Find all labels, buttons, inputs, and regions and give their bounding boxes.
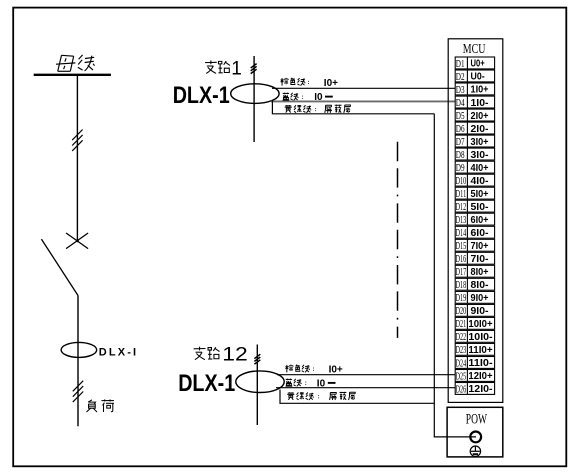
svg-text:9I0-: 9I0-	[471, 306, 489, 317]
svg-text:I0+: I0+	[324, 78, 338, 89]
continuation dashed line (branches 2..11 omitted)	[397, 142, 399, 338]
svg-text:D2: D2	[456, 72, 465, 83]
svg-text:5I0+: 5I0+	[471, 189, 489, 200]
svg-text:D7: D7	[456, 137, 465, 148]
terminal D16 7I0-	[455, 252, 494, 265]
terminal D9 4I0+	[455, 161, 494, 174]
svg-text:12I0+: 12I0+	[468, 371, 492, 382]
svg-text:D12: D12	[456, 202, 467, 213]
terminal D18 8I0-	[455, 278, 494, 291]
svg-text:D4: D4	[456, 98, 465, 109]
svg-text:6I0-: 6I0-	[471, 228, 489, 239]
svg-text:U0-: U0-	[471, 72, 485, 83]
svg-text:D1: D1	[456, 59, 465, 70]
svg-text:D14: D14	[456, 228, 467, 239]
svg-text:1: 1	[231, 58, 242, 79]
branch 12 wire hatch squiggle	[254, 354, 260, 364]
svg-text:D13: D13	[456, 215, 467, 226]
svg-text:9I0+: 9I0+	[471, 293, 489, 304]
disconnect switch contact (X mark)	[66, 233, 88, 249]
wire: feeder lower segment	[77, 296, 79, 427]
svg-text:U0+: U0+	[471, 59, 485, 70]
POW power supply box	[447, 407, 503, 457]
svg-text:D15: D15	[456, 241, 467, 252]
terminal D26 12I0-	[455, 383, 494, 396]
current transformer DLX-I (left feeder)	[61, 342, 97, 357]
svg-text:DLX-1: DLX-1	[178, 370, 235, 397]
feeder hatch marks (lower)	[73, 381, 83, 402]
terminal D20 9I0-	[455, 304, 494, 317]
branch 12 label 支路12	[194, 344, 248, 365]
svg-text:12I0-: 12I0-	[468, 384, 492, 395]
svg-text:D3: D3	[456, 85, 465, 96]
terminal D1 U0+	[455, 57, 494, 70]
branch 1 label 支路1	[205, 58, 242, 79]
terminal D10 4I0-	[455, 174, 494, 187]
svg-text:1I0-: 1I0-	[471, 98, 489, 109]
feeder hatch marks (upper)	[72, 130, 82, 151]
svg-text:3I0-: 3I0-	[471, 150, 489, 161]
svg-text:MCU: MCU	[463, 41, 486, 56]
current transformer DLX-1 (branch 1)	[231, 84, 279, 104]
terminal D15 7I0+	[455, 239, 494, 252]
label yellow-green wire shield	[285, 105, 351, 113]
svg-text:8I0-: 8I0-	[471, 280, 489, 291]
svg-text:D20: D20	[456, 306, 467, 317]
svg-text:2I0+: 2I0+	[471, 111, 489, 122]
svg-text:D21: D21	[456, 319, 467, 330]
svg-text:POW: POW	[466, 411, 488, 427]
wire: branch12 I0- to MCU D26	[276, 387, 455, 389]
wire: branch 12 vertical	[256, 345, 258, 426]
label brown wire I0+ (branch 12)	[285, 365, 343, 376]
wire: shield bus vertical to POW terminal	[434, 114, 476, 437]
svg-text:10I0-: 10I0-	[468, 332, 492, 343]
terminal D2 U0-	[455, 70, 494, 83]
wire: branch1 shield drop	[272, 100, 434, 114]
terminal D4 1I0-	[455, 96, 494, 109]
svg-text:I0+: I0+	[329, 365, 343, 376]
svg-text:D10: D10	[456, 176, 467, 187]
terminal D7 3I0+	[455, 135, 494, 148]
branch 1 wire hatch squiggle	[251, 64, 257, 74]
terminal D21 10I0+	[455, 317, 494, 330]
current transformer DLX-1 (branch 12)	[236, 371, 284, 393]
svg-text:12: 12	[222, 344, 248, 365]
svg-text:5I0-: 5I0-	[471, 202, 489, 213]
svg-text:D22: D22	[456, 332, 467, 343]
terminal D23 11I0+	[455, 343, 494, 356]
terminal D24 11I0-	[455, 357, 494, 370]
svg-text:D16: D16	[456, 254, 467, 265]
svg-text:11I0+: 11I0+	[468, 345, 492, 356]
terminal D6 2I0-	[455, 122, 494, 135]
load label 负荷	[87, 399, 114, 412]
svg-text:D25: D25	[456, 371, 467, 382]
svg-text:2I0-: 2I0-	[471, 124, 489, 135]
label brown wire I0+	[281, 78, 339, 89]
terminal D11 5I0+	[455, 187, 494, 200]
svg-text:D24: D24	[456, 358, 467, 369]
svg-text:4I0-: 4I0-	[471, 176, 489, 187]
svg-text:7I0-: 7I0-	[471, 254, 489, 265]
protective earth symbol	[470, 446, 480, 456]
busbar label 母线	[56, 55, 95, 71]
wire: branch1 I0- to MCU D4	[271, 100, 455, 102]
svg-text:DLX-I: DLX-I	[99, 347, 136, 359]
svg-text:1I0+: 1I0+	[471, 85, 489, 96]
svg-text:D18: D18	[456, 280, 467, 291]
terminal D25 12I0+	[455, 370, 494, 383]
svg-text:D8: D8	[456, 150, 465, 161]
svg-text:11I0-: 11I0-	[468, 358, 492, 369]
terminal D12 5I0-	[455, 200, 494, 213]
svg-text:D5: D5	[456, 111, 465, 122]
label blue wire I0-	[283, 92, 333, 103]
terminal D14 6I0-	[455, 226, 494, 239]
POW shield terminal	[470, 432, 481, 443]
svg-text:7I0+: 7I0+	[471, 241, 489, 252]
wire: branch12 shield drop	[280, 390, 434, 404]
terminal D8 3I0-	[455, 148, 494, 161]
svg-text:D11: D11	[456, 189, 467, 200]
svg-text:I0: I0	[314, 92, 323, 103]
svg-text:D17: D17	[456, 267, 467, 278]
busbar bar	[34, 74, 111, 76]
svg-text:D9: D9	[456, 163, 465, 174]
svg-text:DLX-1: DLX-1	[173, 82, 230, 109]
terminal D13 6I0+	[455, 213, 494, 226]
svg-text:D23: D23	[456, 345, 467, 356]
svg-text:I0: I0	[317, 378, 326, 389]
svg-text:4I0+: 4I0+	[471, 163, 489, 174]
wire: branch1 I0+ to MCU D3	[272, 87, 455, 89]
svg-text:8I0+: 8I0+	[471, 267, 489, 278]
terminal D5 2I0+	[455, 109, 494, 122]
svg-text:D6: D6	[456, 124, 465, 135]
label blue wire I0- (branch 12)	[286, 378, 336, 389]
MCU terminal block outline	[448, 39, 503, 403]
wire: branch 1 vertical	[253, 56, 255, 142]
svg-text:3I0+: 3I0+	[471, 137, 489, 148]
svg-text:10I0+: 10I0+	[468, 319, 492, 330]
terminal D22 10I0-	[455, 330, 494, 343]
disconnect switch blade	[41, 239, 78, 295]
terminal D19 9I0+	[455, 291, 494, 304]
terminal D17 8I0+	[455, 265, 494, 278]
svg-text:6I0+: 6I0+	[471, 215, 489, 226]
label yellow-green wire shield (branch 12)	[287, 392, 355, 400]
wire: feeder drop from busbar	[76, 76, 78, 241]
terminal D3 1I0+	[455, 83, 494, 96]
svg-text:D26: D26	[456, 384, 467, 395]
wire: branch12 I0+ to MCU D25	[277, 374, 455, 376]
svg-text:D19: D19	[456, 293, 467, 304]
